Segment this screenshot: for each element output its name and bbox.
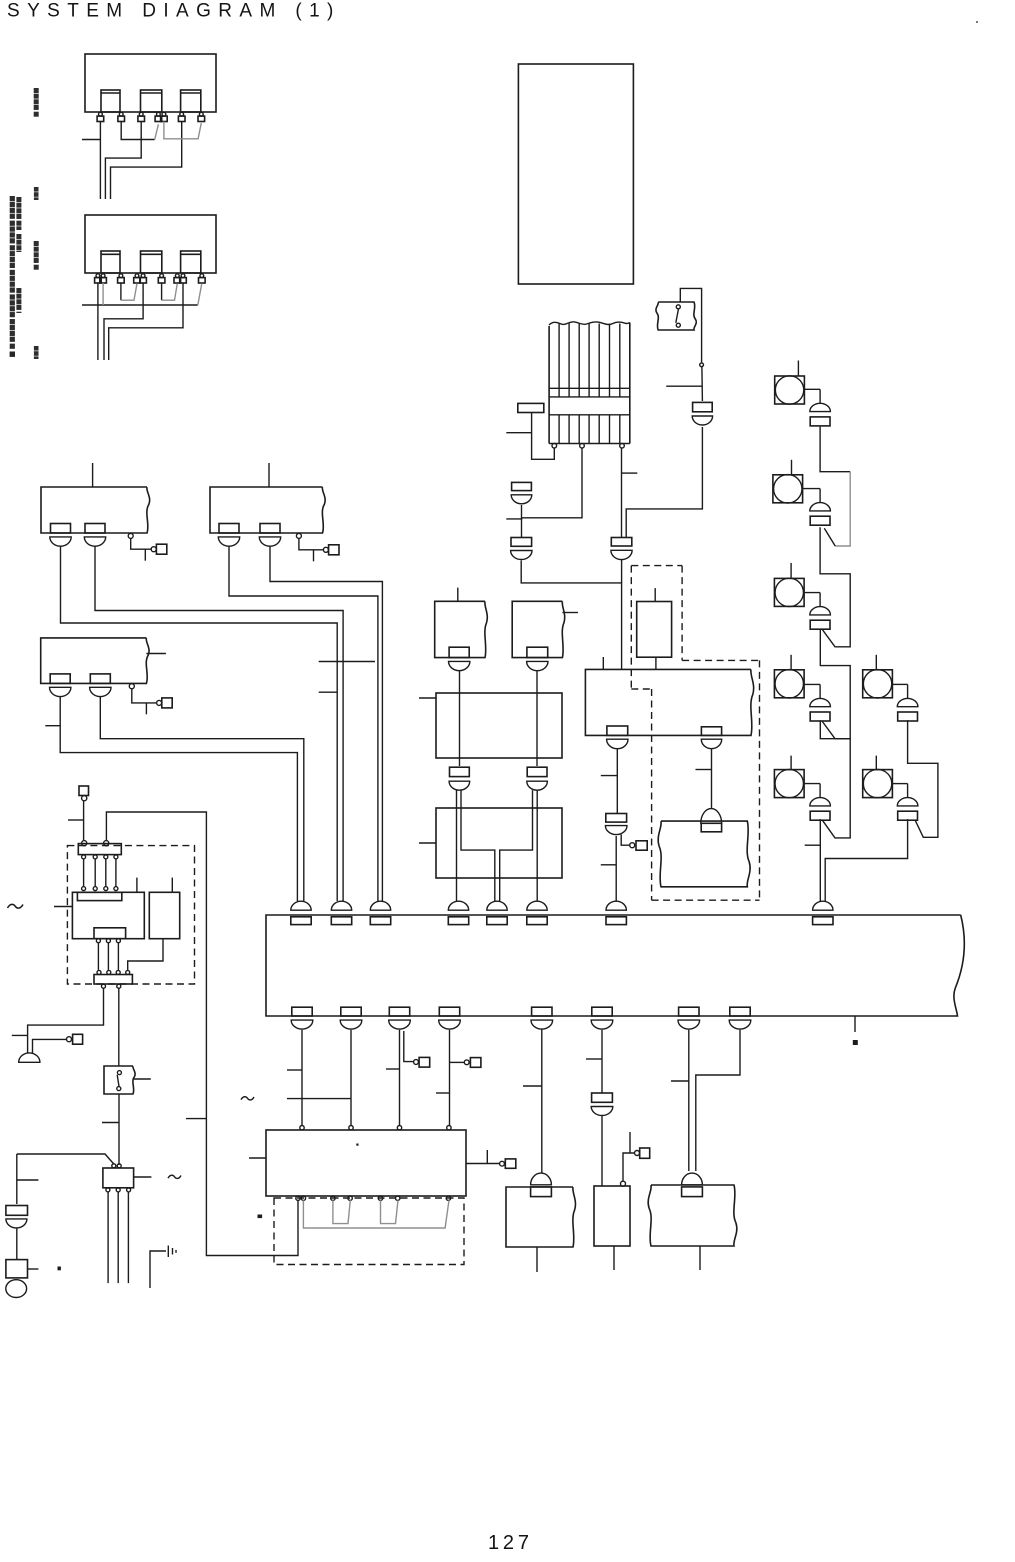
AC strip connector CN901 — [78, 844, 121, 855]
deck inner dot — [356, 1144, 358, 1146]
fuse node — [82, 796, 87, 801]
T2 winding tab 2 — [141, 251, 162, 273]
connector CN switch line — [693, 402, 713, 411]
connector CN box J — [531, 1173, 552, 1185]
bus bottom connector 2 — [341, 1007, 361, 1016]
power transformer T901 — [72, 892, 144, 938]
stub tick 2 — [601, 864, 616, 866]
mic branch wire — [16, 1154, 18, 1204]
ribbon pin 1 — [552, 443, 557, 448]
box J bottom stub — [536, 1247, 538, 1272]
wire ribbon pin3 down — [621, 448, 623, 538]
T2 terminal pin 1 — [96, 274, 100, 278]
wire G left straight to bus — [456, 790, 458, 901]
T901 left stub — [54, 906, 72, 908]
connector CN ribbon pin3 — [611, 538, 632, 547]
wire to speaker branch — [28, 988, 104, 1053]
tilde mark near CN903 — [168, 1175, 181, 1178]
stub bus1 — [287, 1069, 302, 1071]
wire H-right to box P — [711, 749, 713, 809]
T2 terminal pin 4 — [135, 274, 139, 278]
connector block CN903 — [103, 1168, 134, 1188]
secondary strip CN902 — [94, 975, 132, 985]
connector CN box M — [682, 1173, 703, 1185]
deck top pin 4 — [447, 1126, 451, 1130]
wire M7 to bus — [825, 819, 907, 901]
box E right stub — [562, 612, 578, 614]
T2 terminal pin 6 — [160, 274, 164, 278]
bus top connector 7 — [606, 901, 626, 910]
rectifier output wire — [128, 939, 163, 970]
note text column 2 — [16, 197, 21, 202]
ground branch — [150, 1251, 166, 1288]
T2 wire pin8 bend — [109, 283, 183, 360]
test point line — [854, 1016, 856, 1032]
wire G left pair bend — [461, 790, 495, 901]
connector CN F-left — [450, 767, 470, 776]
wire ribbon pin2 to CN chain — [522, 448, 583, 518]
wire bus3 to deck — [399, 1030, 401, 1126]
stub at label box wire — [506, 432, 531, 434]
box N regulator — [637, 602, 672, 658]
wire CN to box K — [601, 1116, 603, 1186]
box E mechanism block — [512, 601, 564, 657]
wire bus7 to box M — [688, 1030, 690, 1171]
T1 jumper pin4b to pin6 — [164, 122, 201, 139]
bus bottom connector 7 — [679, 1007, 699, 1016]
switch right stub — [133, 1078, 151, 1080]
stub above rectifier — [171, 878, 173, 893]
motor feed horizontal — [17, 1154, 114, 1164]
stub bus7 — [671, 1080, 689, 1082]
wire bus6 to box K — [601, 1030, 603, 1093]
box K bottom stub — [613, 1246, 615, 1270]
wire M6 to M7 loop — [908, 720, 938, 837]
stub on switch rail — [666, 385, 702, 387]
mic stub — [17, 1179, 39, 1181]
box H main board — [585, 669, 753, 735]
ribbon pin 3 — [620, 443, 625, 448]
unit M1 (motor) — [775, 376, 805, 404]
bus top connector 1 — [291, 901, 311, 910]
rectifier box — [149, 892, 179, 938]
wire bus2 to deck — [350, 1030, 352, 1126]
box G left stub — [419, 842, 436, 844]
mic wire — [16, 1229, 18, 1260]
main board (bus) — [266, 915, 964, 1016]
stub bus4 — [436, 1092, 450, 1094]
plug at CN H-chain — [621, 835, 630, 846]
stub above transformer — [136, 878, 138, 893]
wire H-left chain to bus — [616, 749, 618, 814]
wire A2 to bus — [95, 546, 343, 901]
T2 jumper pin3 to pin4 — [120, 283, 122, 300]
T2 terminal pin 2 — [101, 274, 105, 278]
T2 terminal pin 5 — [141, 274, 145, 278]
deck top pin 1 — [300, 1126, 304, 1130]
bus bottom connector 5 — [532, 1007, 552, 1016]
box B output tab 1 — [219, 524, 239, 534]
block tuner/display (empty) — [518, 64, 633, 284]
deck bottom pin 5 — [378, 1196, 382, 1200]
tilde AC mark — [8, 904, 24, 908]
stub tick 1 — [601, 775, 618, 777]
T2 winding tab 1 — [101, 251, 120, 273]
unit M2 (motor) — [773, 475, 803, 503]
deck right plug — [466, 1163, 500, 1165]
unit M7 (motor) — [863, 770, 893, 798]
CN903 right stub — [134, 1176, 152, 1178]
small mark in dashed box — [258, 1215, 263, 1219]
wire A1 to bus — [61, 546, 338, 901]
T1 terminal pin 7 — [199, 112, 203, 116]
wire E through F — [536, 671, 538, 767]
bus top connector 2 — [331, 901, 351, 910]
bus top connector 5 — [487, 901, 507, 910]
fuse square top — [79, 786, 89, 796]
box C remote plug — [129, 684, 134, 689]
speaker plug — [33, 1039, 67, 1053]
crossing tick 2 — [319, 691, 338, 693]
box H bottom tab right — [701, 727, 721, 736]
bus top connector 3 — [370, 901, 390, 910]
dashed boundary upper — [631, 565, 682, 567]
connector CN upper (ribbon) — [512, 482, 532, 490]
ground loop wire deck to strip — [106, 812, 298, 1256]
box C output tab 1 — [50, 674, 70, 684]
box A output tab 2 — [85, 524, 105, 534]
small mark near mic — [58, 1267, 61, 1271]
stub tick M5 — [805, 844, 821, 846]
deck bottom pin 2 — [301, 1196, 305, 1200]
tie wire bus1-bus2 — [287, 1098, 351, 1100]
box A amplifier block — [41, 487, 150, 533]
mic right stub — [28, 1268, 39, 1270]
T2 horizontal tie wire — [82, 304, 198, 306]
T1 terminal pin 6 — [180, 112, 184, 116]
mic capsule circle — [6, 1280, 27, 1298]
box A top stub — [92, 463, 94, 487]
leaf switch S902 — [104, 1066, 135, 1094]
test point dot — [853, 1040, 858, 1045]
svg-text:SYSTEM DIAGRAM (1): SYSTEM DIAGRAM (1) — [7, 1, 341, 22]
wire switch rail to CN — [626, 427, 702, 538]
unit M5 (motor) — [774, 770, 804, 798]
box K corner node — [621, 1181, 626, 1186]
T1 winding tab 2 — [141, 90, 162, 112]
wire G right pair bend — [500, 790, 533, 901]
connector CN F-right — [527, 767, 547, 776]
crossing tick 1 — [319, 661, 375, 663]
wire junction down — [701, 367, 704, 401]
deck bottom pin 7 — [446, 1196, 450, 1200]
box N bottom stub — [655, 657, 657, 670]
T1 terminal pin 3 — [139, 112, 143, 116]
junction node — [700, 363, 704, 367]
deck bottom pin 1 — [296, 1196, 300, 1200]
registration dot top-right — [976, 21, 978, 23]
box B top stub — [268, 463, 270, 487]
box M head board — [648, 1185, 737, 1246]
note text column 1 — [10, 196, 15, 201]
T2 terminal pin 3 — [119, 274, 123, 278]
wire to leaf switch — [118, 988, 120, 1066]
T1 terminal pin 5 — [162, 112, 166, 116]
bus top connector 4 — [448, 901, 468, 910]
box B remote plug — [296, 533, 301, 538]
CN903 output wires — [107, 1192, 109, 1283]
T2 wire pin5 bend — [104, 283, 143, 360]
wire M3 to M4 loop — [820, 629, 850, 739]
connector CN K line — [592, 1093, 613, 1102]
box F left stub — [419, 697, 436, 699]
T1 wire pin1 down — [99, 122, 101, 200]
label wo-setsuzoku case T2 — [34, 241, 39, 246]
box A output tab 1 — [51, 524, 71, 534]
connector CN box P — [701, 809, 722, 824]
box C right stub — [146, 653, 166, 655]
ribbon cable bundle — [549, 322, 630, 325]
bus bottom connector 4 — [439, 1007, 459, 1016]
wire bus4 to deck — [449, 1030, 451, 1126]
T2 jumper to pin9 — [198, 284, 202, 306]
wire switch down — [118, 1094, 120, 1165]
wire bus5 to box J — [541, 1029, 543, 1173]
dashed box power unit — [67, 846, 194, 984]
T2 terminal pin 9 — [200, 274, 204, 278]
wire M5 to bus — [819, 819, 821, 901]
T2 terminal pin 7 — [175, 274, 179, 278]
wire C2 to bus — [100, 697, 303, 902]
T1 left stub — [82, 139, 100, 141]
transformer unit T1 body — [85, 54, 216, 112]
box K solenoid — [594, 1186, 630, 1246]
wire M1 to M2 loop — [820, 427, 850, 472]
deck bottom pin 6 — [396, 1196, 400, 1200]
box H bottom tab left — [607, 726, 628, 735]
speaker dome — [19, 1053, 40, 1062]
unit M6 (motor) — [863, 670, 893, 698]
wire D through F — [459, 671, 461, 767]
wire bus8 to box M — [696, 1030, 740, 1171]
bus bottom connector 6 — [592, 1007, 612, 1016]
mic body box — [6, 1260, 28, 1278]
T1 terminal pin 1 — [99, 112, 103, 116]
box E output tab — [527, 647, 548, 657]
ribbon pin 2 — [580, 443, 585, 448]
box P power board — [658, 821, 750, 887]
wire label box to ribbon pin1 — [532, 413, 555, 460]
stub on pin3 wire — [622, 472, 638, 474]
T1 terminal pin 4 — [157, 112, 161, 116]
box B output tab 2 — [260, 524, 280, 534]
T1 winding tab 1 — [101, 90, 120, 112]
box H top stub — [602, 657, 604, 669]
box A remote plug — [128, 533, 133, 538]
power switch S901 — [656, 302, 696, 330]
label input T1 — [34, 187, 39, 192]
T2 winding tab 3 — [181, 251, 201, 273]
wire CN to box H — [621, 560, 623, 670]
belt pocket 2 — [381, 1200, 399, 1223]
deck top pin 3 — [397, 1126, 401, 1130]
box C amplifier block — [41, 638, 149, 684]
belt loop outline — [303, 1200, 449, 1228]
wire bus1 to deck — [301, 1030, 303, 1126]
bus bottom connector 3 — [389, 1007, 409, 1016]
box D mechanism block — [435, 601, 488, 657]
wire M2 to M3 loop — [820, 527, 850, 647]
plug on bus4 wire — [450, 1061, 465, 1063]
plug on bus3 wire — [404, 1031, 413, 1062]
T1 wire pin5 bend — [111, 122, 182, 200]
bus bottom connector 1 — [292, 1007, 312, 1016]
wire CN chain to box H rail — [521, 561, 621, 583]
T2 gray pin2 drop — [102, 283, 104, 305]
belt pocket 1 — [333, 1200, 350, 1223]
wire switch to right rail — [680, 288, 701, 363]
T1 wire pin3 bend — [105, 122, 141, 200]
bus bottom connector 8 — [730, 1007, 750, 1016]
stub on loop rail — [186, 1118, 206, 1120]
deck bottom pin 3 — [331, 1196, 335, 1200]
deck left stub — [249, 1157, 266, 1159]
unit M3 (motor) — [774, 578, 804, 606]
dashed boundary lower — [682, 659, 759, 661]
wire chain to bus dome — [615, 836, 617, 901]
power wires strip to transformer — [83, 859, 85, 887]
T2 wire pin1 down — [97, 283, 99, 360]
speaker stub — [12, 1034, 28, 1036]
box M bottom stub — [699, 1246, 701, 1270]
connector CN lower (ribbon) — [511, 538, 532, 547]
connector CN H-chain — [606, 814, 627, 823]
label wo-setsuzoku case T1 — [34, 88, 39, 93]
stub bus6 — [586, 1058, 602, 1060]
box F servo block — [436, 693, 562, 758]
mic connector — [6, 1206, 28, 1216]
bus top connector 6 — [527, 901, 547, 910]
svg-text:127: 127 — [488, 1532, 533, 1554]
box B amplifier block — [210, 487, 325, 533]
tilde mark center — [241, 1097, 254, 1100]
wire G right straight to bus — [536, 790, 538, 901]
wire between connectors — [521, 505, 523, 538]
stub fuse wire — [68, 819, 84, 821]
deck bottom pin 4 — [348, 1196, 352, 1200]
box D top stub — [457, 588, 459, 602]
stub tick 3 — [696, 769, 712, 771]
stub bus3 — [386, 1068, 400, 1070]
box G servo block — [436, 808, 562, 878]
transformer unit T2 body — [85, 215, 216, 273]
wire B1 to bus — [229, 546, 378, 901]
wire M4 to M5 loop — [820, 720, 850, 738]
stub at CN chain — [506, 518, 522, 520]
box C output tab 2 — [90, 674, 110, 684]
box J motor board — [506, 1187, 575, 1247]
wire fuse to strip — [83, 800, 85, 840]
stub on switch wire — [102, 1122, 119, 1124]
unit M4 (motor) — [774, 670, 804, 698]
cassette deck block — [266, 1130, 466, 1196]
box N top stub — [654, 588, 656, 601]
T2 jumper pin6 to pin7 — [161, 283, 163, 300]
box C left stub — [45, 725, 60, 727]
box D output tab — [449, 647, 469, 657]
transformer secondary pins — [96, 939, 100, 943]
label input T2 — [34, 346, 39, 351]
dashed box lower mechanism — [274, 1198, 464, 1265]
T1 jumper pin2 to pin4a — [121, 122, 155, 140]
label box at ribbon — [518, 403, 544, 412]
bus top connector 8 — [813, 901, 833, 910]
deck top pin 2 — [349, 1126, 353, 1130]
box K plug — [623, 1153, 635, 1182]
T2 terminal pin 8 — [181, 274, 185, 278]
T1 winding tab 3 — [181, 90, 201, 112]
wire B2 to bus — [270, 546, 382, 901]
ground symbol — [167, 1246, 169, 1258]
wire C1 to bus — [60, 697, 297, 902]
stub bus5 — [523, 1085, 542, 1087]
T1 terminal pin 2 — [119, 112, 123, 116]
